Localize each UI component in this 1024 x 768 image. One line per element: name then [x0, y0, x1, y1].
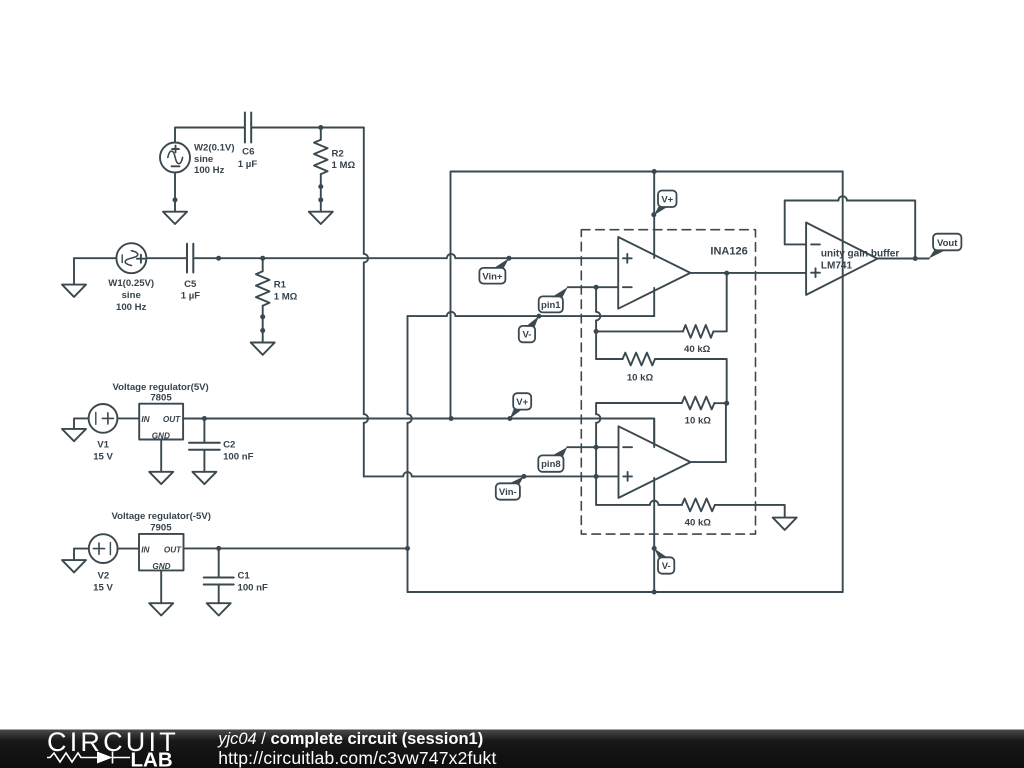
op-amp U1 (INA126 A1) — [618, 237, 690, 309]
svg-text:1 µF: 1 µF — [181, 291, 201, 302]
resistor 40k (to ground) — [596, 504, 650, 506]
ground left of V2 — [74, 549, 89, 561]
LM741 power pins vertical — [842, 172, 844, 593]
node C2 tap — [202, 416, 207, 421]
voltage regulator 7905 — [139, 534, 184, 571]
svg-text:100 Hz: 100 Hz — [116, 302, 147, 313]
CircuitLab logo — [47, 727, 179, 768]
svg-text:IN: IN — [141, 546, 150, 555]
svg-text:V+: V+ — [661, 194, 673, 205]
svg-text:R1: R1 — [274, 280, 287, 291]
svg-text:pin1: pin1 — [541, 300, 561, 311]
wire W1 to C5 — [146, 257, 186, 259]
svg-text:Vin+: Vin+ — [482, 271, 503, 282]
A2 V+ pin — [653, 419, 655, 446]
node 7905 junction — [405, 546, 410, 551]
wire 7905 OUT (to V- vertical) — [184, 547, 408, 549]
svg-text:Voltage regulator(5V): Voltage regulator(5V) — [112, 382, 208, 393]
node feedback/output — [913, 256, 918, 261]
ground under R2 — [320, 200, 322, 212]
wire Vin- row — [364, 475, 403, 477]
wire pin8 row — [567, 446, 618, 448]
svg-text:1 MΩ: 1 MΩ — [332, 160, 356, 171]
voltage source V2 — [89, 534, 118, 563]
A1 V+ pin — [653, 172, 655, 259]
net flag Vin+ — [479, 268, 505, 284]
node V- flag attach top — [536, 314, 541, 319]
node 40k tap — [594, 329, 599, 334]
svg-text:INA126: INA126 — [710, 246, 747, 258]
capacitor C1 — [218, 548, 220, 576]
ground at 40k — [773, 518, 797, 530]
wire 7805 OUT (V+ rail) — [183, 419, 654, 448]
op-amp U3 LM741 — [806, 223, 877, 295]
svg-text:1 MΩ: 1 MΩ — [274, 291, 298, 302]
net flag V- (top) — [519, 326, 535, 342]
wire A2 output — [691, 403, 726, 462]
svg-text:Vout: Vout — [937, 238, 958, 249]
svg-text:10 kΩ: 10 kΩ — [627, 373, 654, 384]
wire V+ top rail — [451, 172, 843, 419]
net flag V+ (top, at A1) — [658, 191, 677, 208]
svg-text:C2: C2 — [223, 440, 235, 451]
svg-text:LAB: LAB — [131, 749, 173, 768]
node Vin- flag attach — [521, 474, 526, 479]
resistor R1 — [262, 258, 264, 271]
net flag Vin- — [496, 483, 520, 499]
ground under W2 — [174, 200, 176, 212]
svg-text:100 nF: 100 nF — [223, 451, 254, 462]
capacitor C5 — [187, 244, 193, 273]
svg-text:sine: sine — [194, 154, 213, 165]
wire C5 to op-amp A1 +in — [194, 257, 446, 259]
svg-text:7905: 7905 — [150, 523, 172, 534]
wire vertical from R2 net down to Vin- row — [363, 128, 365, 254]
ground left of V1 — [74, 418, 89, 429]
svg-text:V-: V- — [523, 330, 532, 341]
net flag V+ (middle) — [513, 393, 531, 409]
wire W1 left — [74, 257, 116, 259]
svg-text:GND: GND — [152, 562, 170, 571]
7805 GND pin — [160, 440, 162, 472]
resistor 10k lower — [714, 402, 726, 404]
svg-text:C6: C6 — [242, 147, 254, 158]
wire A1 output — [690, 272, 806, 274]
svg-text:15 V: 15 V — [93, 582, 113, 593]
wire V2 to 7905 — [118, 548, 139, 550]
node Vin- tee — [594, 474, 599, 479]
node V+ flag attach — [507, 416, 512, 421]
ground under C2 — [192, 472, 216, 484]
wire V- bottom rail — [408, 591, 843, 593]
wire V- row to A1 — [408, 315, 447, 317]
svg-text:Vin-: Vin- — [499, 487, 517, 498]
svg-text:sine: sine — [122, 290, 141, 301]
op-amp U2 (INA126 A2) — [619, 426, 691, 498]
svg-text:40 kΩ: 40 kΩ — [685, 518, 712, 529]
node A1 out / 40k — [724, 271, 729, 276]
node V+ riser junction — [449, 416, 454, 421]
footer bar — [0, 730, 1024, 768]
svg-text:OUT: OUT — [163, 415, 181, 424]
net flag pin8 — [538, 455, 563, 471]
svg-text:Voltage regulator(-5V): Voltage regulator(-5V) — [111, 511, 211, 522]
voltage source V1 — [89, 404, 118, 433]
node 10k junction — [724, 401, 729, 406]
svg-text:V2: V2 — [98, 571, 110, 582]
node Vin+ attach — [507, 256, 512, 261]
svg-text:1 µF: 1 µF — [238, 159, 258, 170]
wire C6 to R2 to corner — [252, 127, 364, 129]
svg-text:V1: V1 — [97, 440, 109, 451]
resistor R2 — [320, 128, 322, 140]
svg-text:LM741: LM741 — [821, 260, 853, 271]
svg-text:unity gain buffer: unity gain buffer — [821, 249, 899, 260]
voltage source W1 — [116, 243, 146, 273]
svg-text:100 nF: 100 nF — [238, 582, 269, 593]
svg-text:pin8: pin8 — [541, 459, 561, 470]
net flag V- (bottom) — [658, 557, 674, 573]
node R2 top — [318, 125, 323, 130]
svg-text:10 kΩ: 10 kΩ — [685, 416, 712, 427]
resistor 10k upper — [596, 358, 623, 360]
node R1 top — [260, 256, 265, 261]
svg-text:yjc04 / complete circuit (sess: yjc04 / complete circuit (session1) — [217, 730, 483, 748]
ground under C1 — [207, 603, 231, 615]
capacitor C2 — [203, 419, 205, 442]
wire LM741 output — [877, 258, 928, 260]
7905 GND pin — [160, 570, 162, 603]
node V- flag bottom attach — [652, 546, 657, 551]
svg-text:V-: V- — [662, 561, 671, 572]
node A1 V+ tap — [652, 169, 657, 174]
voltage source W2 — [160, 143, 190, 173]
svg-text:100 Hz: 100 Hz — [194, 165, 225, 176]
svg-text:W2(0.1V): W2(0.1V) — [194, 142, 235, 153]
svg-text:V+: V+ — [516, 397, 528, 408]
svg-text:7805: 7805 — [150, 392, 172, 403]
wire LM741 feedback — [785, 201, 839, 245]
svg-text:OUT: OUT — [164, 546, 182, 555]
voltage regulator 7805 — [139, 404, 183, 440]
svg-text:R2: R2 — [332, 148, 344, 159]
node C1 tap — [216, 546, 221, 551]
svg-text:http://circuitlab.com/c3vw747x: http://circuitlab.com/c3vw747x2fukt — [218, 748, 496, 768]
svg-text:40 kΩ: 40 kΩ — [684, 344, 711, 355]
wire pin1 row — [568, 286, 619, 288]
wire V- rail vertical — [407, 316, 409, 414]
svg-text:IN: IN — [141, 415, 150, 424]
svg-text:C5: C5 — [184, 279, 197, 290]
wire pin1 vertical — [595, 287, 597, 312]
svg-text:GND: GND — [152, 432, 170, 441]
wire V1 to 7805 — [117, 417, 139, 419]
svg-text:C1: C1 — [238, 571, 251, 582]
node after C5 — [216, 256, 221, 261]
node pin1 tee — [594, 285, 599, 290]
node pin8 tee — [594, 445, 599, 450]
INA126 dashed boundary — [581, 230, 755, 534]
ground left of W1 — [73, 258, 75, 284]
wire W2 top — [175, 128, 244, 143]
svg-text:W1(0.25V): W1(0.25V) — [108, 278, 154, 289]
node V+ flag top attach — [651, 212, 656, 217]
resistor 40k (A1 feedback) — [596, 330, 683, 332]
wire W2 bottom — [174, 173, 176, 200]
A2 V- pin — [653, 478, 655, 592]
A1 V- pin — [653, 288, 655, 316]
net flag pin1 — [539, 296, 563, 312]
svg-text:15 V: 15 V — [93, 451, 113, 462]
node V- pin A2 bottom — [652, 590, 657, 595]
ground under R1 — [262, 331, 264, 343]
net flag Vout — [933, 234, 961, 251]
capacitor C6 — [245, 113, 251, 143]
